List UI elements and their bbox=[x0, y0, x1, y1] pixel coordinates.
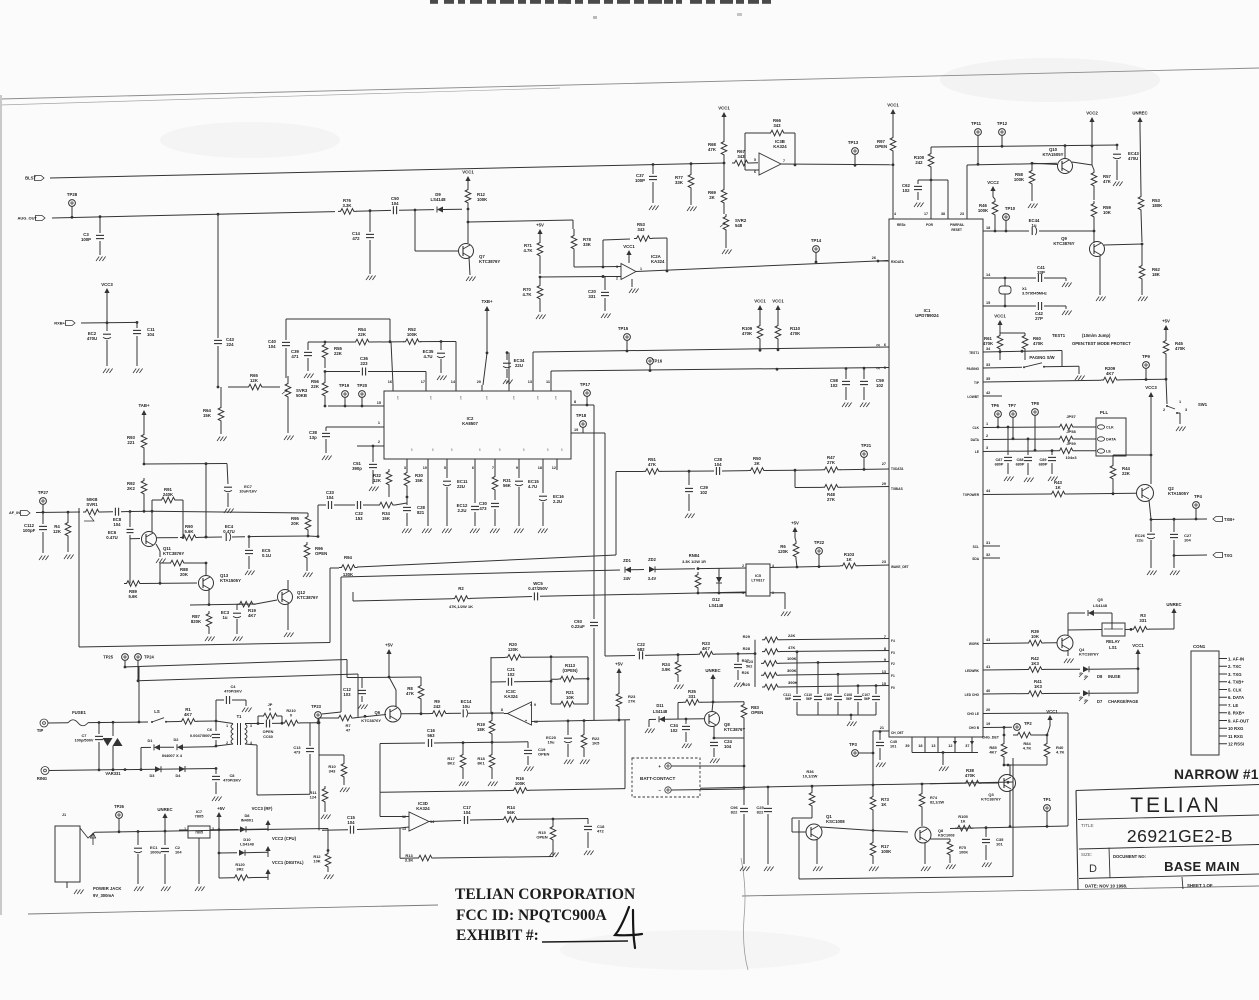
resistor R18 bbox=[489, 752, 495, 770]
svg-text:16: 16 bbox=[388, 380, 392, 384]
svg-text:7: 7 bbox=[783, 159, 785, 163]
wire R13 left bbox=[400, 857, 416, 859]
svg-text:WORK: WORK bbox=[969, 642, 980, 646]
svg-text:24V: 24V bbox=[623, 576, 631, 581]
svg-text:42: 42 bbox=[986, 391, 990, 395]
wire RXB+ line bbox=[81, 321, 137, 324]
resistor R7 bbox=[336, 715, 354, 721]
capacitor EC7 bbox=[227, 464, 228, 485]
svg-text:472: 472 bbox=[352, 236, 360, 241]
wire Q9 base bbox=[1093, 231, 1095, 243]
svg-text:1: 1 bbox=[640, 267, 642, 271]
resistor R55 bbox=[322, 342, 328, 360]
ground ladder caps bbox=[847, 722, 850, 727]
wire CHG LE line bbox=[983, 712, 1068, 715]
power VCC1 at IC2A bbox=[626, 250, 631, 255]
wire IC3B output bbox=[781, 163, 893, 166]
svg-text:12K: 12K bbox=[250, 378, 259, 383]
svg-text:10K: 10K bbox=[313, 859, 320, 864]
power jack J1 bbox=[55, 826, 80, 882]
svg-text:103: 103 bbox=[343, 692, 351, 697]
ground EC16 bbox=[538, 529, 541, 534]
svg-text:−: − bbox=[658, 788, 661, 793]
svg-text:19: 19 bbox=[574, 428, 578, 432]
power VCC3 RF bbox=[265, 820, 270, 825]
capacitor C109 bbox=[837, 673, 840, 676]
power VCC1 at R84 bbox=[1047, 715, 1052, 720]
svg-text:TP16: TP16 bbox=[652, 359, 663, 364]
svg-text:7805: 7805 bbox=[195, 814, 205, 819]
svg-text:T1: T1 bbox=[237, 714, 243, 719]
wire R14 to C18 bbox=[553, 818, 588, 821]
svg-text:5.6K: 5.6K bbox=[184, 529, 194, 534]
junction C34 bbox=[685, 718, 688, 721]
capacitor C29 bbox=[688, 471, 690, 485]
ground C14 bbox=[366, 276, 369, 281]
wire power rail bbox=[95, 830, 219, 832]
cut-off stamp text at top edge bbox=[430, 0, 438, 4]
svg-text:240K: 240K bbox=[163, 492, 174, 497]
svg-text:12K: 12K bbox=[373, 478, 382, 483]
LED D8 INUSE bbox=[1083, 666, 1089, 672]
svg-text:104: 104 bbox=[326, 495, 334, 500]
wire R76 to C50 bbox=[356, 209, 391, 212]
svg-text:(9): (9) bbox=[876, 343, 880, 347]
svg-text:TITLE: TITLE bbox=[1081, 823, 1094, 828]
svg-text:82,1/2W: 82,1/2W bbox=[930, 800, 945, 804]
svg-text:820K: 820K bbox=[191, 619, 202, 624]
connector AF input bbox=[21, 511, 31, 516]
svg-text:56P: 56P bbox=[864, 697, 871, 701]
wire TP25 leg bbox=[138, 667, 140, 722]
svg-text:TXPOWER: TXPOWER bbox=[963, 493, 980, 497]
ground C29 bbox=[685, 514, 688, 519]
resistor R17 bbox=[870, 840, 876, 858]
svg-text:4K7: 4K7 bbox=[989, 750, 997, 755]
wire IC7 out bbox=[210, 829, 219, 831]
wire C50 to D9 bbox=[399, 209, 434, 212]
svg-text:10,1/2W: 10,1/2W bbox=[803, 774, 818, 779]
svg-text:2: 2 bbox=[986, 434, 988, 438]
svg-text:i.n: i.n bbox=[560, 448, 564, 451]
svg-text:i.n: i.n bbox=[450, 448, 454, 451]
LED D7 CHARGE bbox=[1083, 690, 1089, 696]
svg-text:ZD2: ZD2 bbox=[648, 557, 656, 562]
ground C41 bbox=[1065, 278, 1067, 281]
junction C35 bbox=[985, 826, 988, 829]
ground EC35 bbox=[437, 376, 440, 381]
svg-text:TIP: TIP bbox=[37, 728, 44, 733]
junction R17 node bbox=[462, 741, 465, 744]
svg-text:D3: D3 bbox=[150, 773, 156, 778]
svg-text:+5V: +5V bbox=[385, 643, 393, 648]
capacitor EC16 bbox=[542, 464, 544, 493]
ground C28 chain bbox=[402, 529, 405, 534]
capacitor C30 bbox=[491, 502, 499, 504]
wire IC2A output RXDATA line bbox=[636, 261, 888, 272]
svg-text:VCC2: VCC2 bbox=[1086, 111, 1098, 116]
wire R32 pin3 bbox=[406, 464, 408, 470]
svg-text:TP27: TP27 bbox=[38, 490, 49, 495]
ground D11 bbox=[645, 729, 648, 734]
ground EC12 bbox=[470, 529, 473, 534]
svg-text:OPEN: OPEN bbox=[536, 835, 547, 840]
resistor R8 bbox=[418, 683, 424, 701]
capacitor C87 bbox=[1007, 426, 1010, 429]
resistor R43 bbox=[1049, 491, 1067, 497]
svg-text:27P: 27P bbox=[1035, 316, 1043, 321]
resistor R91 bbox=[159, 497, 177, 503]
ground R17 bbox=[869, 867, 872, 872]
svg-text:PAGING S/W: PAGING S/W bbox=[1029, 355, 1054, 360]
svg-text:KTC3876Y: KTC3876Y bbox=[163, 551, 184, 556]
pin 14 right bbox=[982, 277, 984, 279]
svg-text:242: 242 bbox=[915, 160, 923, 165]
wire fuse to LS bbox=[88, 721, 148, 724]
power VCC1 at R12 bbox=[465, 176, 470, 181]
junction R113 right bbox=[550, 655, 553, 658]
svg-text:5: 5 bbox=[754, 158, 756, 162]
diode D9 bbox=[437, 207, 443, 213]
svg-text:D11: D11 bbox=[656, 703, 664, 708]
capacitor EC1 bbox=[137, 830, 140, 833]
svg-text:D2: D2 bbox=[174, 737, 180, 742]
svg-text:C88: C88 bbox=[1017, 458, 1024, 462]
wire Q12 collector bbox=[287, 580, 289, 590]
resistor R4 bbox=[65, 520, 71, 538]
svg-text:CHARGE/PAGE: CHARGE/PAGE bbox=[1108, 699, 1138, 704]
svg-text:101: 101 bbox=[890, 744, 896, 748]
svg-text:2K: 2K bbox=[709, 195, 715, 200]
resistor R95 bbox=[305, 514, 311, 532]
svg-text:102: 102 bbox=[830, 383, 838, 388]
svg-text:26: 26 bbox=[872, 256, 876, 260]
svg-text:223: 223 bbox=[360, 361, 368, 366]
resistor R67 bbox=[732, 160, 750, 166]
svg-text:3: 3 bbox=[212, 827, 214, 831]
ground C20 bbox=[601, 314, 604, 319]
ground IC5 bbox=[781, 612, 784, 617]
op-amp IC3D bbox=[409, 812, 429, 831]
wire AUG_OUT main bbox=[52, 212, 335, 218]
junction C14 tap bbox=[369, 209, 372, 212]
transistor Q13 bbox=[199, 576, 214, 591]
svg-text:9: 9 bbox=[516, 466, 518, 470]
svg-text:Q8: Q8 bbox=[938, 829, 943, 833]
svg-text:120K: 120K bbox=[508, 647, 519, 652]
svg-text:15: 15 bbox=[986, 301, 990, 305]
svg-text:22U: 22U bbox=[457, 484, 465, 489]
wire bottom pins common bbox=[912, 752, 978, 754]
svg-text:TP17: TP17 bbox=[580, 382, 591, 387]
wire Q2 emitter bbox=[1149, 500, 1151, 519]
wire VCC3 down bbox=[106, 299, 108, 331]
svg-text:Q6: Q6 bbox=[375, 710, 381, 715]
svg-text:VCC2 (CPU): VCC2 (CPU) bbox=[272, 836, 297, 841]
capacitor C41 bbox=[983, 277, 1000, 279]
svg-text:6. DATA: 6. DATA bbox=[1228, 695, 1244, 700]
junction C16 node bbox=[491, 741, 494, 744]
svg-text:548: 548 bbox=[735, 223, 743, 228]
resistor RN84 vertical bbox=[695, 572, 701, 590]
junction EC8 out bbox=[129, 510, 132, 513]
wire node line bbox=[144, 463, 227, 466]
wire IC5 pin4 out bbox=[770, 566, 797, 569]
power VCC1 at R68 bbox=[721, 112, 726, 117]
wire Q9 collector bbox=[1104, 244, 1142, 245]
svg-text:PLL: PLL bbox=[1100, 410, 1109, 415]
crystal X1 bbox=[1004, 278, 1006, 286]
BATT-CONTACT box bbox=[632, 758, 700, 797]
svg-text:9: 9 bbox=[534, 703, 536, 707]
test point TP13 bbox=[852, 148, 859, 155]
resistor R30 bbox=[404, 470, 410, 488]
test point TP8 bbox=[1032, 409, 1039, 416]
svg-text:100K: 100K bbox=[978, 208, 989, 213]
svg-text:CHG B: CHG B bbox=[969, 726, 980, 730]
junction R24 bbox=[677, 653, 680, 656]
resistor R68 bbox=[721, 139, 727, 157]
resistor R38 bbox=[963, 780, 981, 786]
svg-text:18K: 18K bbox=[477, 727, 486, 732]
transistor Q8 bbox=[705, 712, 720, 727]
test point TP12 bbox=[999, 129, 1006, 136]
ground C8 bbox=[212, 797, 215, 802]
svg-text:i.n: i.n bbox=[410, 448, 414, 451]
capacitor C19 bbox=[527, 742, 529, 748]
svg-text:50KB: 50KB bbox=[296, 393, 307, 398]
capacitor C62 bbox=[918, 179, 931, 181]
svg-text:2.2U: 2.2U bbox=[457, 508, 466, 513]
svg-text:8K2: 8K2 bbox=[447, 761, 455, 766]
svg-text:TP18: TP18 bbox=[576, 413, 587, 418]
wire TXB+ line bbox=[1151, 518, 1207, 521]
junction R93 node bbox=[143, 463, 146, 466]
svg-text:OPEN: OPEN bbox=[751, 710, 763, 715]
svg-text:LE: LE bbox=[975, 450, 979, 454]
svg-text:UNREC: UNREC bbox=[705, 668, 720, 673]
wire R19 to Q12 bbox=[255, 600, 277, 604]
svg-text:0.22uF: 0.22uF bbox=[571, 624, 585, 629]
ground EC34 bbox=[503, 380, 506, 385]
wire feedback up bbox=[602, 240, 604, 267]
batt minus terminal bbox=[665, 787, 671, 793]
test point TP19 bbox=[342, 391, 349, 398]
wire pin12 stub bbox=[556, 464, 558, 470]
svg-text:470K: 470K bbox=[965, 773, 976, 778]
svg-text:D12: D12 bbox=[712, 597, 720, 602]
wire loop over IC2 bbox=[286, 318, 390, 320]
resistor R1 bbox=[179, 719, 197, 725]
svg-text:56K: 56K bbox=[503, 483, 512, 488]
connector RING bbox=[41, 767, 49, 775]
capacitor CC60 bbox=[258, 723, 264, 725]
capacitor C110 bbox=[817, 661, 820, 664]
wire EC4 node corner to C33 bbox=[308, 535, 318, 538]
svg-text:10u: 10u bbox=[548, 740, 555, 745]
svg-text:0.1U: 0.1U bbox=[262, 553, 271, 558]
transistor Q11 bbox=[142, 532, 157, 547]
power +5V at R23b bbox=[616, 668, 621, 673]
resistor R9 bbox=[430, 711, 448, 717]
svg-text:5: 5 bbox=[444, 466, 446, 470]
resistor R90 bbox=[180, 535, 198, 541]
svg-text:F2: F2 bbox=[891, 662, 895, 666]
svg-text:VCC1: VCC1 bbox=[1132, 643, 1144, 648]
wire R16 riser bbox=[624, 720, 626, 789]
wire IC7 gnd bbox=[198, 838, 200, 884]
junction R65 node bbox=[217, 386, 220, 389]
wire Q7 emitter bbox=[469, 257, 470, 275]
svg-text:POR: POR bbox=[926, 223, 934, 227]
svg-text:Q5: Q5 bbox=[1097, 597, 1103, 602]
ground jack bbox=[66, 882, 68, 888]
power VCC1 at R110 bbox=[775, 305, 780, 310]
svg-text:VCC1 (DIGITAL): VCC1 (DIGITAL) bbox=[272, 860, 304, 865]
test point TP3 bbox=[852, 750, 859, 757]
svg-text:3: 3 bbox=[616, 265, 618, 269]
svg-text:1: 1 bbox=[1179, 400, 1181, 404]
power UNREC entry bbox=[162, 813, 167, 818]
svg-text:+5V: +5V bbox=[536, 223, 544, 228]
svg-text:47K,1/2W 1K: 47K,1/2W 1K bbox=[449, 604, 473, 609]
svg-text:TP12: TP12 bbox=[997, 121, 1008, 126]
svg-text:35: 35 bbox=[986, 377, 990, 381]
capacitor C33 bbox=[327, 501, 329, 509]
svg-text:TEST1: TEST1 bbox=[969, 351, 979, 355]
ground C25 bbox=[764, 867, 767, 872]
svg-text:0: 0 bbox=[269, 707, 271, 712]
junction R85 top bbox=[1003, 726, 1006, 729]
svg-text:100K: 100K bbox=[881, 849, 892, 854]
box lower right bbox=[798, 820, 800, 879]
wire SVR1 to EC8 bbox=[101, 511, 113, 513]
ground C112 bbox=[39, 556, 42, 561]
svg-text:KTC3876Y: KTC3876Y bbox=[297, 595, 318, 600]
pin 26 RXDATA bbox=[878, 260, 889, 262]
svg-text:100P: 100P bbox=[81, 237, 91, 242]
node AUG vertical to C43 bbox=[217, 213, 220, 216]
test point TP22 bbox=[816, 548, 823, 555]
resistor R46 bbox=[992, 199, 998, 217]
wire WORK line bbox=[983, 642, 1026, 645]
svg-text:TELIAN: TELIAN bbox=[1130, 794, 1222, 817]
svg-text:102: 102 bbox=[670, 728, 678, 733]
svg-text:WAKE_DET: WAKE_DET bbox=[891, 565, 909, 569]
power VCC3 at RXB bbox=[104, 288, 109, 293]
svg-text:0.47/250V: 0.47/250V bbox=[528, 586, 548, 591]
svg-text:KTC3876Y: KTC3876Y bbox=[981, 797, 1001, 802]
power VCC2 at R46 bbox=[990, 186, 995, 191]
junction R45 SW1 bbox=[1165, 378, 1168, 381]
ground IC2A bbox=[631, 279, 633, 287]
resistor R93 bbox=[141, 432, 147, 450]
diode D8 power bbox=[219, 829, 238, 831]
svg-text:EXHIBIT #:: EXHIBIT #: bbox=[456, 927, 539, 944]
ground EC3 bbox=[233, 637, 236, 642]
svg-text:D4: D4 bbox=[176, 773, 182, 778]
power VCC1 at R97 bbox=[890, 109, 895, 114]
svg-text:SCL: SCL bbox=[973, 545, 979, 549]
svg-text:RING: RING bbox=[37, 776, 47, 781]
CON1 pin 9. AF-OUT bbox=[1219, 720, 1227, 722]
CON1 pin 2. TXC bbox=[1219, 665, 1227, 667]
ground R10 bbox=[340, 788, 343, 793]
resistor R57 bbox=[1091, 170, 1097, 188]
capacitor C14 bbox=[366, 233, 374, 235]
svg-text:17: 17 bbox=[924, 212, 928, 216]
svg-text:224: 224 bbox=[226, 342, 234, 347]
wire to SW1 bbox=[1166, 379, 1167, 404]
wire D7 to VCC1 bbox=[1089, 692, 1138, 694]
connector RXB+ bbox=[66, 321, 76, 326]
test point TP20 bbox=[359, 391, 366, 398]
test point TP23 bbox=[315, 712, 322, 719]
svg-text:17: 17 bbox=[421, 380, 425, 384]
svg-text:102: 102 bbox=[902, 188, 910, 193]
test point TP14 bbox=[813, 246, 820, 253]
wire line A to pin6 bbox=[532, 352, 534, 385]
ground R4 bbox=[64, 555, 67, 560]
svg-text:DATA: DATA bbox=[971, 438, 980, 442]
capacitor C23 bbox=[737, 654, 739, 662]
svg-text:47K: 47K bbox=[1103, 179, 1112, 184]
svg-text:C23: C23 bbox=[746, 660, 753, 664]
wire R88 left leg bbox=[159, 563, 161, 583]
capacitor EC6 bbox=[127, 528, 134, 530]
jumper JP57 bbox=[1057, 424, 1075, 430]
resistor R52 bbox=[403, 339, 421, 345]
svg-text:BLST: BLST bbox=[25, 176, 36, 181]
resistor R21 bbox=[558, 701, 576, 707]
resistor R6 bbox=[793, 541, 799, 559]
CON1 pin 4. TXB+ bbox=[1219, 681, 1227, 683]
svg-text:TXG: TXG bbox=[1224, 553, 1232, 558]
wire RING line bbox=[49, 769, 216, 771]
diode D2 bbox=[160, 746, 174, 748]
ground IC7 bbox=[195, 887, 198, 892]
svg-text:+5V: +5V bbox=[791, 521, 799, 526]
svg-text:104: 104 bbox=[391, 201, 399, 206]
resistor R27 bbox=[761, 661, 779, 667]
test point TP28 bbox=[69, 200, 76, 207]
svg-text:SIZE:: SIZE: bbox=[1081, 852, 1092, 857]
svg-text:7805: 7805 bbox=[195, 831, 203, 835]
resistor R19A bbox=[237, 601, 255, 607]
connector CON1 bbox=[1191, 651, 1219, 755]
test point TP6 bbox=[995, 411, 1002, 418]
svg-text:33K: 33K bbox=[675, 180, 684, 185]
capacitor C4 loop bbox=[215, 700, 217, 721]
svg-text:124: 124 bbox=[310, 795, 317, 800]
handwritten 4 bbox=[615, 907, 642, 948]
svg-text:F3: F3 bbox=[891, 651, 895, 655]
pins IC2 bottom bbox=[406, 459, 408, 464]
wire PAGING line bbox=[983, 366, 1022, 369]
wire ladder common bbox=[754, 640, 756, 687]
svg-text:LS4148: LS4148 bbox=[653, 709, 668, 714]
switch LS bbox=[151, 721, 153, 723]
svg-text:SDA: SDA bbox=[972, 557, 979, 561]
svg-text:2: 2 bbox=[742, 564, 744, 568]
trimmer SVR3 bbox=[285, 381, 291, 399]
resistor R78 bbox=[571, 233, 577, 251]
svg-text:473: 473 bbox=[479, 506, 487, 511]
capacitor EC8 bbox=[114, 508, 116, 516]
svg-text:LS: LS bbox=[154, 709, 160, 714]
capacitor C16 bbox=[380, 742, 425, 745]
wire node to R78 branch bbox=[468, 220, 573, 222]
